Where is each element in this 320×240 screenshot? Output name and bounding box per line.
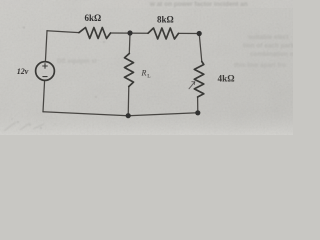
faint diagonal streaks bottom-left xyxy=(4,122,44,131)
svg-text:4kΩ: 4kΩ xyxy=(218,74,235,84)
faint specks bottom left xyxy=(12,27,105,129)
resistor RL zigzag xyxy=(125,54,134,87)
wire left side lower (source to bottom corner) xyxy=(43,80,45,111)
bottom middle junction dot xyxy=(126,113,131,118)
svg-text:tion of each park: tion of each park xyxy=(243,43,293,50)
wire left side upper (corner to source) xyxy=(45,31,47,62)
resistor 8kΩ zigzag xyxy=(148,28,179,39)
paper background xyxy=(0,0,293,135)
wire node B down to 4k xyxy=(199,34,202,62)
svg-text:12v: 12v xyxy=(17,67,29,76)
node A junction dot xyxy=(127,30,132,35)
bleed-through text from reverse page xyxy=(57,1,295,69)
wire top-left corner to 6k resistor xyxy=(47,31,79,33)
svg-text:8kΩ: 8kΩ xyxy=(157,15,174,25)
wire bottom right segment xyxy=(128,113,198,116)
wire 6k to node A xyxy=(111,32,149,34)
svg-text:w at on power factor incident: w at on power factor incident an xyxy=(149,1,248,8)
wire bottom left segment xyxy=(43,112,128,116)
node B junction dot xyxy=(197,31,202,36)
bottom right junction dot xyxy=(195,110,200,115)
wire 8k to node B xyxy=(179,32,200,34)
wire 4k to bottom node xyxy=(197,97,199,113)
wire node A down to RL xyxy=(128,33,131,54)
svg-text:DC equipm st: DC equipm st xyxy=(57,58,97,65)
svg-text:suitable elect: suitable elect xyxy=(248,34,289,41)
voltage source V1 circle xyxy=(36,62,55,81)
wire RL to bottom node xyxy=(127,87,130,116)
svg-text:this line apart fro: this line apart fro xyxy=(234,62,286,69)
voltage source plus sign xyxy=(43,65,48,67)
resistor 6kΩ zigzag xyxy=(79,28,111,39)
arrow mark on 4kΩ resistor xyxy=(189,82,195,89)
voltage source minus sign xyxy=(43,76,47,78)
svg-text:6kΩ: 6kΩ xyxy=(85,13,102,23)
resistor 4kΩ zigzag xyxy=(194,62,204,98)
svg-text:combination o: combination o xyxy=(250,51,293,58)
svg-text:R: R xyxy=(141,69,147,78)
